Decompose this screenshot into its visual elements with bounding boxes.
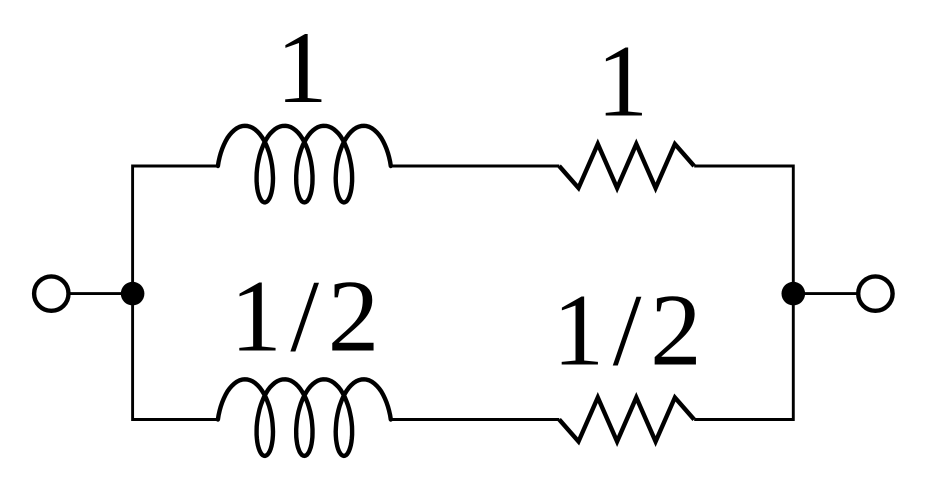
svg-text:1: 1 [597, 25, 649, 139]
svg-text:1/2: 1/2 [553, 274, 702, 388]
svg-text:1/2: 1/2 [230, 259, 379, 373]
svg-text:1: 1 [276, 11, 328, 125]
